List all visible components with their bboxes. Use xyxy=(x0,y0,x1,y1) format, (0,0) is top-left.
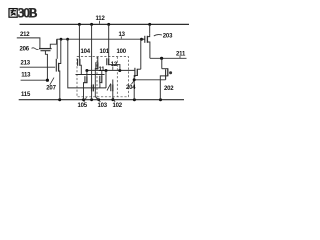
transistor 104 gate bar xyxy=(77,59,79,66)
transistor 104 source lead down xyxy=(80,65,82,74)
node dot on rail 115 at x=59.7 xyxy=(58,98,61,101)
transistor 103b drain lead from wire 11 xyxy=(101,71,103,77)
transistor 202 substrate mark xyxy=(169,71,172,74)
transistor 105 source lead down to rail 115 xyxy=(84,83,87,100)
node dot on wire 211 at x=161.6 xyxy=(160,57,163,60)
transistor 206 gate bar xyxy=(41,50,51,52)
lead tick of 211 xyxy=(179,56,181,58)
lead line of 102 xyxy=(113,98,115,102)
wire from node 204 source to transistor 202 gate xyxy=(134,79,165,81)
node dot on rail 112 at x=149.7 xyxy=(148,23,151,26)
svg-text:115: 115 xyxy=(21,92,31,98)
svg-text:113: 113 xyxy=(21,73,31,79)
node dot on wire 13 at x=61 xyxy=(60,38,63,41)
svg-text:102: 102 xyxy=(113,103,123,109)
label 104 xyxy=(81,49,91,55)
transistor 204 source bend down xyxy=(134,76,137,100)
dashed divider between stage 101 and stage 100 xyxy=(116,57,118,97)
transistor 207 source lead down to rail 115 xyxy=(59,71,60,100)
wire 115: bottom ground rail xyxy=(19,99,184,101)
transistor 103b source lead down to bus xyxy=(100,83,102,88)
transistor 102 channel bar xyxy=(112,84,114,91)
lead line of 103 xyxy=(96,97,101,102)
wire 211 output xyxy=(150,57,187,59)
transistor 203 gate lead from wire 13 xyxy=(142,38,145,40)
lead tick of 112 xyxy=(99,21,101,24)
label 13 xyxy=(119,32,126,38)
node dot on wire 11 at x=119.8 xyxy=(118,69,121,72)
transistor 203 gate bar xyxy=(144,36,146,43)
node dot on rail 115 at x=91.6 xyxy=(90,98,93,101)
transistor 206 channel bar xyxy=(39,48,52,50)
transistor 202 drain wire down from node on wire 211 xyxy=(161,58,163,68)
lead line of 105 xyxy=(84,97,87,102)
transistor 101 channel bar xyxy=(97,62,99,69)
dashed divider between stage 104 and stage 101 xyxy=(96,57,98,97)
transistor 203 source bend down xyxy=(147,42,150,58)
label 112 xyxy=(96,16,106,22)
label 211 xyxy=(176,52,186,58)
transistor 100 channel bar xyxy=(108,58,110,65)
transistor 102 gate bar xyxy=(110,84,112,91)
transistor 104 drain wire from rail 112 xyxy=(78,24,80,58)
svg-text:30B: 30B xyxy=(18,6,37,20)
node dot on rail 115 at x=98.7 xyxy=(97,98,100,101)
transistor 202 gate bar xyxy=(165,69,167,79)
lead line of 203 xyxy=(154,35,162,36)
transistor 103 source lead to rail 115 xyxy=(91,91,93,100)
label 207 xyxy=(46,85,56,91)
node dot on rail 112 at x=108.7 xyxy=(107,23,110,26)
svg-text:112: 112 xyxy=(96,16,106,22)
transistor 105 gate bar xyxy=(84,76,86,83)
transistor 204 drain bend xyxy=(137,68,141,70)
label 203 xyxy=(163,33,173,39)
transistor 104 channel bar xyxy=(79,59,81,66)
node A: junction dot wire113 / 206 gate xyxy=(46,79,49,82)
svg-text:13: 13 xyxy=(119,32,126,38)
label 202 xyxy=(164,86,174,92)
transistor 204 drain wire from node on wire 13 xyxy=(140,39,142,69)
wire 11: node bus from stage output to transistor 204 gate xyxy=(87,69,135,71)
wire 112: top supply rail xyxy=(20,23,190,25)
node dot on rail 115 at x=134.4 xyxy=(133,98,136,101)
wire 13: second rail xyxy=(57,38,145,40)
transistor 103b channel bar xyxy=(101,76,103,83)
transistor 203 drain bend xyxy=(147,34,149,37)
lead stroke near transistor 102 xyxy=(107,84,111,91)
transistor 202 drain bend xyxy=(162,68,168,70)
svg-text:103: 103 xyxy=(98,103,108,109)
svg-text:105: 105 xyxy=(78,103,88,109)
node dot on wire 11 at x=106 xyxy=(105,69,108,72)
lead squiggle of 206 xyxy=(32,48,39,50)
transistor 204 gate bar xyxy=(134,68,136,77)
transistor 101 gate bar xyxy=(95,62,97,69)
transistor 102 source lead down to rail 115 xyxy=(112,91,114,100)
transistor 105 channel bar xyxy=(86,76,88,83)
transistor 207 channel bar xyxy=(58,63,60,72)
transistor 103 gate lead from bus xyxy=(95,70,98,99)
label 212 xyxy=(20,32,30,38)
label 113 xyxy=(21,73,31,79)
wire: staircase from wire 13 down to transistor 206 xyxy=(50,39,56,48)
transistor 102 drain lead xyxy=(112,80,114,85)
wire gate bus of bottom transistors xyxy=(76,74,105,76)
transistor 100 gate bar xyxy=(106,58,108,65)
svg-text:204: 204 xyxy=(126,85,136,91)
transistor 202 source bend down to rail 115 xyxy=(160,76,168,100)
transistor 101 drain lead from box top xyxy=(97,57,99,62)
wire 213 lead to transistor 207 gate xyxy=(20,66,56,68)
transistor 203 drain wire from rail 112 xyxy=(149,24,151,33)
transistor 206 gate lead wire down to node on wire 113 xyxy=(45,51,47,80)
svg-text:206: 206 xyxy=(20,46,30,52)
node dot on wire 11 at x=86.9 xyxy=(85,69,88,72)
transistor 207 drain lead up to wire 13 xyxy=(59,39,61,63)
transistor 204 channel bar xyxy=(136,69,138,76)
lead tick of 13 xyxy=(120,36,122,38)
label 213 xyxy=(21,60,31,66)
svg-text:104: 104 xyxy=(81,49,91,55)
node dot at 204 source / gate wire xyxy=(133,78,136,81)
transistor 207 gate bar xyxy=(55,59,57,72)
label 102 xyxy=(113,103,123,109)
lead line of 207 xyxy=(50,78,54,85)
transistor 103 gate bar xyxy=(92,84,94,91)
title 图30B xyxy=(9,6,37,20)
label 12 xyxy=(111,62,118,68)
wire from node x=106 down to bottom bus xyxy=(105,71,107,89)
wire 113 xyxy=(21,79,48,81)
label 103 xyxy=(98,103,108,109)
node dot on rail 112 at x=79.4 xyxy=(78,23,81,26)
svg-text:203: 203 xyxy=(163,33,173,39)
node dot on rail 115 at x=112.8 xyxy=(111,98,114,101)
label 204 xyxy=(126,85,136,91)
wire from wire13 node x=67.6 down and right into bottom group xyxy=(68,39,106,88)
transistor 103b gate bar xyxy=(99,76,101,83)
transistor 101 source lead down xyxy=(95,69,98,71)
node dot on wire 13 at x=67.6 xyxy=(66,38,69,41)
label 11 xyxy=(99,67,106,73)
node dot on rail 112 at x=91.6 xyxy=(90,23,93,26)
dashed box around transistor group 104/101/100 xyxy=(77,57,129,97)
label 115 xyxy=(21,92,31,98)
transistor 202 channel bar xyxy=(167,68,169,76)
label 206 xyxy=(20,46,30,52)
node dot on rail 115 at x=83.5 xyxy=(82,98,85,101)
node dot on wire 13 at x=141.5 xyxy=(140,38,143,41)
transistor 100 source lead down to wire 11 node xyxy=(109,65,120,71)
transistor 100 drain wire from rail 112 xyxy=(108,24,110,57)
svg-text:213: 213 xyxy=(21,60,31,66)
transistor 103 channel bar xyxy=(91,84,93,91)
svg-text:212: 212 xyxy=(20,32,30,38)
label 105 xyxy=(78,103,88,109)
svg-text:100: 100 xyxy=(117,49,127,55)
wire 212 lead to transistor 206 drain xyxy=(17,38,40,48)
label 101 xyxy=(100,49,110,55)
lead tick of 12 xyxy=(112,66,114,70)
transistor 105 drain lead from node on wire 11 xyxy=(86,71,88,77)
wire from wire 13 down to 207 gate bar xyxy=(56,39,58,59)
transistor 203 channel bar xyxy=(146,36,148,43)
wire drain of 103 from rail 112 xyxy=(91,24,93,84)
node dot on rail 115 at x=160.5 xyxy=(159,98,162,101)
label 100 xyxy=(117,49,127,55)
svg-text:202: 202 xyxy=(164,86,174,92)
svg-text:211: 211 xyxy=(176,52,186,58)
svg-text:207: 207 xyxy=(46,85,56,91)
lead line of 204 xyxy=(132,81,135,84)
